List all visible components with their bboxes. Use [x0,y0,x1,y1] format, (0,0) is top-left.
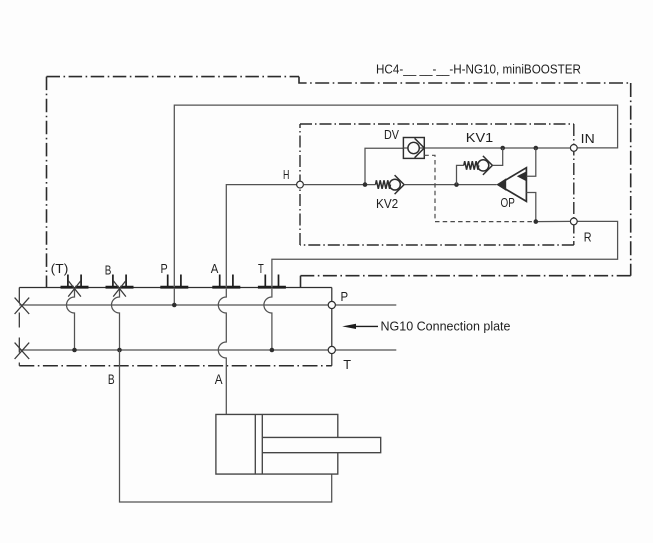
channel B with hop over P rail, continues to cylinder [112,288,120,351]
svg-text:KV1: KV1 [466,130,493,145]
wire P supply from plate P port to booster IN [174,105,617,305]
svg-text:R: R [584,230,592,245]
OP inlet filled arrow [497,178,507,191]
plugged rail end X at T rail [15,343,30,359]
channel T with hop over P rail [264,288,272,351]
plugged rail end X at P rail [15,298,30,314]
oscillating pump OP [497,148,536,222]
cylinder barrel [216,414,338,474]
T rail [19,349,328,351]
wire P node stub [335,304,396,306]
svg-text:DV: DV [384,127,399,142]
plate left edge dashed [18,288,20,366]
plate right edge [331,288,333,366]
wire T node stub [335,349,396,351]
svg-text:T: T [343,357,351,372]
svg-text:IN: IN [581,131,595,146]
svg-text:B: B [108,372,115,387]
OP inner filled arrow [517,171,527,181]
wire booster R to plate T port [272,221,618,287]
junction dot (T) on T rail [72,348,77,353]
junction dot at DV branch [363,182,368,187]
junction dot P supply on P rail [172,303,177,308]
junction dot OP top [534,146,539,151]
node H [297,181,304,188]
port (T) symbol [61,275,89,288]
svg-text:A: A [211,261,219,276]
port A symbol [212,275,240,288]
node T on plate [328,346,335,353]
node R [570,218,577,225]
svg-text:OP: OP [501,195,515,210]
wire OP lower connection to pilot line [526,193,535,222]
svg-text:KV2: KV2 [376,196,398,211]
cylinder piston [255,414,262,474]
node IN [570,145,577,152]
wire OP upper connection to IN line [526,148,535,176]
valve DV (square with ball-seat check) [403,138,424,159]
wire main line H to KV2 to OP [303,184,496,186]
port (T) blocked X [68,281,81,297]
label NG10 Connection plate with arrow [342,324,356,329]
wire DV output to IN [424,147,570,149]
svg-text:NG10 Connection plate: NG10 Connection plate [381,320,511,334]
junction dot KV1 top [500,146,505,151]
wire B line to cylinder rod side [120,350,332,502]
pilot line dashed from DV to R [424,155,536,221]
port P symbol [160,275,188,288]
node P on plate [328,301,335,308]
wire pilot junction to R node [536,220,571,222]
svg-text:(T): (T) [51,261,69,276]
svg-text:H: H [283,167,289,182]
check valve KV1 (spring + ball seat) [457,148,503,185]
port B symbol [106,275,134,288]
junction dot T on T rail [270,348,275,353]
port B blocked X [113,281,126,297]
OP body open triangle [498,168,526,202]
cylinder rod [262,437,380,452]
wire H node to plate A port [226,185,296,288]
svg-text:HC4-__ __-__-H-NG10, miniBOOST: HC4-__ __-__-H-NG10, miniBOOSTER [376,62,581,77]
wire DV branch riser [365,148,403,184]
plate bottom edge phantom [19,365,332,367]
svg-text:P: P [161,261,168,276]
svg-text:B: B [105,263,112,278]
port T symbol [258,275,286,288]
svg-text:T: T [258,261,264,276]
check valve KV2 (spring + ball seat) [376,175,405,194]
channel A hops over both rails, continues to cylinder [218,288,226,415]
junction dot B on T rail [117,348,122,353]
junction dot KV1 bottom [454,182,459,187]
plate top edge [19,287,332,289]
junction dot pilot/OP [534,219,539,224]
svg-text:P: P [341,289,349,304]
channel (T) with hop over P rail [67,288,75,351]
booster inner phantom box [300,124,574,245]
svg-text:A: A [215,372,223,387]
P rail [19,304,328,306]
outer enclosure phantom line (HC4 unit boundary) [47,77,631,288]
